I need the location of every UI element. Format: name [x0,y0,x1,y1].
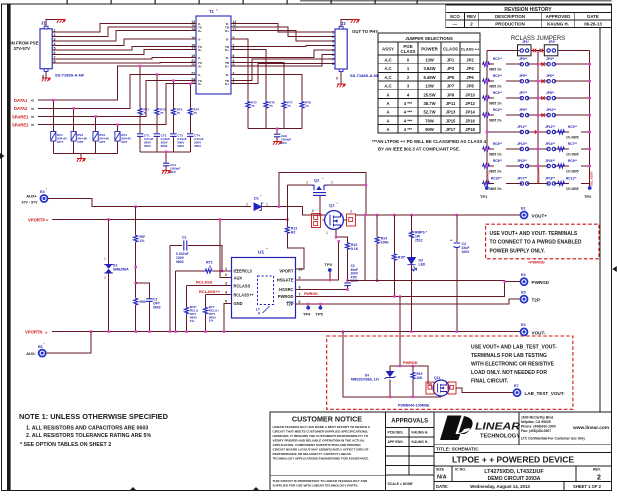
svg-text:CIRCUIT BOARD LAYOUT MAY SIGNI: CIRCUIT BOARD LAYOUT MAY SIGNIFICANTLY A… [273,448,369,452]
svg-text:OPT: OPT [57,140,63,144]
wire RCLASS++ to pin4 [206,294,232,296]
svg-text:0603: 0603 [153,306,161,310]
IN FROM PSE label [11,41,39,52]
zener D4 [351,366,396,397]
svg-text:3.84W: 3.84W [423,66,435,71]
svg-text:0: 0 [209,265,211,269]
wire J2 bottom shield [340,72,342,84]
junction VPORTP/AUX branch [219,218,222,221]
svg-text:5: 5 [332,49,334,53]
capacitor C2 [136,283,161,332]
svg-text:4: 4 [332,44,334,48]
logo / title block [434,412,612,491]
svg-text:RCLASS++: RCLASS++ [199,289,221,294]
svg-text:*: * [347,18,349,23]
wire D1 node to rail [279,207,312,215]
svg-text:VPORTP: VPORTP [28,217,45,222]
main rail VOUT+ right segment [356,214,521,216]
svg-text:Fax: (408)434-0507: Fax: (408)434-0507 [521,429,551,433]
svg-text:JP7: JP7 [447,84,455,89]
svg-text:E7: E7 [514,384,519,388]
resistor R78 [300,101,311,129]
junction TP3 [329,279,332,282]
rclass row 3: RC3 / JP7 / JP8 [482,91,590,106]
svg-text:JP15: JP15 [446,118,456,123]
junction R15 bottom [393,295,396,298]
svg-text:X-: X- [198,56,201,60]
svg-text:1% 0805: 1% 0805 [566,152,579,156]
svg-text:1%: 1% [190,319,195,323]
junction rail dots [364,214,367,217]
svg-text:BY AN IEEE 802.3 AT COMPLIANT: BY AN IEEE 802.3 AT COMPLIANT PSE. [378,147,460,152]
svg-text:JP14: JP14 [465,110,475,115]
svg-text:A: A [386,92,389,97]
wire PWRGD pullup line [348,281,521,282]
svg-text:POWER: POWER [421,47,438,52]
varistor RV3 [93,117,109,154]
X mark JP1 [533,49,537,53]
svg-text:2: 2 [332,35,334,39]
svg-text:JP12: JP12 [465,101,475,106]
note 1 text [19,412,169,448]
svg-text:75: 75 [305,104,309,108]
svg-text:JP2*: JP2* [549,40,557,44]
junction rclass left bus dots [486,63,489,167]
svg-text:A: A [386,118,389,123]
svg-text:RC5**: RC5** [568,125,578,129]
svg-text:OPT: OPT [99,140,105,144]
svg-text:52.7W: 52.7W [423,110,435,115]
varistor RV4 [115,125,131,154]
svg-text:X+: X+ [198,65,202,69]
svg-text:Wednesday, August 14, 2013: Wednesday, August 14, 2013 [470,484,530,489]
resistor R9 [134,207,146,298]
svg-text:LED: LED [419,263,426,267]
svg-text:APPROVALS: APPROVALS [391,419,428,425]
svg-text:U1: U1 [258,250,264,256]
svg-text:*: * [216,8,218,13]
svg-text:***AN LTPOE ++ PD WILL BE CLAS: ***AN LTPOE ++ PD WILL BE CLASSIFIED AS … [372,139,487,144]
svg-text:T2P: T2P [286,302,294,307]
svg-text:0603: 0603 [144,144,151,148]
svg-text:100V: 100V [462,250,471,254]
svg-text:OPT: OPT [121,140,127,144]
svg-text:R15*: R15* [398,256,406,260]
junction Q1 source [335,236,338,239]
svg-text:25.5W: 25.5W [423,92,435,97]
svg-text:PCB DES.: PCB DES. [388,431,404,435]
svg-text:1% 0805: 1% 0805 [566,187,579,191]
svg-text:06-26-13: 06-26-13 [584,22,602,27]
wire R75-78 bus [248,129,302,134]
svg-text:10: 10 [299,267,303,271]
svg-text:0805 1%: 0805 1% [489,118,502,122]
U1 pin names [234,269,294,307]
junction HSSRC tap [346,279,349,282]
svg-text:6: 6 [258,312,260,316]
svg-text:APP ENG.: APP ENG. [388,440,404,444]
svg-text:DATE: DATE [587,14,599,19]
junction VPORTP/R12 column [286,218,289,221]
svg-text:7: 7 [332,58,334,62]
svg-text:4 ***: 4 *** [404,101,413,106]
U1 pin numbers [225,267,303,304]
wire rclass left bus [486,51,488,189]
rclass row 4: RC4 / JP9 / JP10 [482,108,590,123]
wire rclass right bus [589,51,591,189]
svg-text:2512: 2512 [415,239,423,243]
ground RV bus [77,158,86,162]
IC U1 [232,247,296,319]
svg-text:T1: T1 [209,9,215,14]
terminal E2 VOUT- [521,328,528,335]
J1 pin numbers [42,29,56,79]
svg-text:Q1: Q1 [329,203,335,208]
svg-text:WITH ELECTRONIC OR RESISTIVE: WITH ELECTRONIC OR RESISTIVE [471,362,555,368]
svg-text:JP11**: JP11** [517,125,528,129]
transistor Q2 [287,176,366,215]
svg-text:E6: E6 [38,345,43,349]
svg-text:0603: 0603 [177,144,184,148]
svg-text:0603: 0603 [161,144,168,148]
junction C1 to pin1 net [221,270,224,273]
svg-text:RC2**: RC2** [493,74,503,78]
junction RV taps [52,99,55,102]
wire T1 taps to R75-R78 [231,39,302,100]
wire gate distribution [390,366,432,384]
svg-text:70W: 70W [425,118,434,123]
svg-text:0805 1%: 0805 1% [489,68,502,72]
rclass row 7: RC8 / JP15 / JP16 / RC9 [482,159,590,174]
svg-text:9: 9 [299,276,301,280]
resistor R17 [203,295,219,332]
connector J1 [40,18,85,78]
svg-text:DEMO CIRCUIT 2093A: DEMO CIRCUIT 2093A [488,476,541,482]
svg-text:37V - 57V: 37V - 57V [22,201,39,205]
wire HSSRC riser to rail [348,215,366,281]
wire DATA2 line [38,75,196,109]
svg-text:IN FROM PSE: IN FROM PSE [11,41,39,46]
ground J2 bottom [337,84,346,88]
svg-text:Q11: Q11 [434,376,440,380]
svg-text:E1: E1 [521,207,526,211]
junction R9 mid [134,266,137,269]
svg-text:1% 0805: 1% 0805 [566,135,579,139]
svg-text:LINEAR TECHNOLOGY HAS MADE A B: LINEAR TECHNOLOGY HAS MADE A BEST EFFORT… [273,425,371,429]
junction PWRGD riser top [503,280,506,283]
transistor Q1 [312,201,356,235]
customer notice box [270,412,386,491]
svg-text:38.7W: 38.7W [423,101,435,106]
svg-text:2: 2 [597,475,601,482]
svg-text:PRODUCTION: PRODUCTION [495,22,525,27]
svg-text:13W: 13W [425,58,434,63]
resistor RT1 [176,261,232,332]
svg-text:RC1**: RC1** [493,57,503,61]
svg-text:6: 6 [332,53,334,57]
terminal E5 T2P [521,296,528,303]
X mark JP2 [539,49,543,53]
svg-text:100K: 100K [381,241,390,245]
svg-text:RT1: RT1 [206,261,213,265]
svg-text:4 ***: 4 *** [404,127,413,132]
svg-text:LT4275XDD, LT4321IUF: LT4275XDD, LT4321IUF [484,469,544,475]
svg-text:JP17: JP17 [446,127,456,132]
svg-text:SS-7188S-A-NF: SS-7188S-A-NF [55,73,85,78]
resistor R16 [184,286,198,332]
svg-text:D1: D1 [254,197,259,201]
svg-text:JP4**: JP4** [546,57,555,61]
svg-text:THIS CIRCUIT IS PROPRIETARY TO: THIS CIRCUIT IS PROPRIETARY TO LINEAR TE… [273,479,368,483]
svg-text:SPARE2: SPARE2 [12,123,29,128]
svg-text:JP5**: JP5** [519,74,528,78]
svg-text:JP9**: JP9** [519,108,528,112]
svg-text:CLASS ++: CLASS ++ [461,48,480,52]
svg-text:»: » [45,330,48,335]
svg-text:37V-57V: 37V-57V [14,46,31,51]
svg-text:LINEAR: LINEAR [475,421,520,433]
svg-text:X-: X- [198,73,201,77]
capacitor CT1 [137,134,154,152]
svg-text:«: « [31,123,34,129]
svg-text:JP17**: JP17** [517,176,528,180]
svg-text:RCLASS: RCLASS [234,284,251,289]
svg-text:A,C: A,C [384,58,391,63]
wire VPORTP line [52,220,287,278]
svg-text:JP8: JP8 [466,84,474,89]
terminal E1 VOUT+ [521,212,528,219]
svg-text:JP18: JP18 [465,127,475,132]
svg-text:D-: D- [226,38,229,42]
svg-text:0805 1%: 0805 1% [489,152,502,156]
rclass row 2: RC2 / JP5 / JP6 [482,74,590,89]
svg-text:0805 1%: 0805 1% [489,187,502,191]
jumper JP2 [538,40,590,56]
svg-text:JP9: JP9 [447,92,455,97]
svg-text:LTC Confidential-For Customer: LTC Confidential-For Customer Use Only [521,437,585,441]
svg-text:KAUNG H.: KAUNG H. [412,440,429,444]
ground J2 top [351,19,360,23]
svg-text:TO CONNECT TO A PWRGD ENABLED: TO CONNECT TO A PWRGD ENABLED [490,240,582,246]
wire Q3 source bus [343,332,441,397]
J2 pin numbers [332,31,334,67]
svg-text:Milpitas, CA 95035: Milpitas, CA 95035 [521,420,551,424]
svg-text:POWER SUPPLY ONLY.: POWER SUPPLY ONLY. [490,248,546,254]
jumper selections table [378,33,480,133]
svg-text:Q2: Q2 [314,178,320,183]
svg-text:E5: E5 [521,291,526,295]
terminal E3 AUX+ [41,195,48,202]
main rail VOUT+ left segment [312,214,326,216]
svg-text:SHEET 1 OF 2: SHEET 1 OF 2 [573,484,602,489]
svg-text:3: 3 [332,40,334,44]
VPORTN rail [52,331,521,333]
svg-text:1: 1 [332,31,334,35]
jumper table footnote [372,139,487,152]
svg-text:JP10**: JP10** [546,108,557,112]
svg-text:—: — [453,22,458,27]
capacitor CG1 [163,163,181,174]
warning box 1 [486,224,599,259]
svg-text:1: 1 [225,267,227,271]
capacitor CT2 [154,134,171,152]
wire J2 shield top to ground [341,20,355,27]
wire rclass middle bus [537,51,539,184]
svg-text:D-: D- [226,56,229,60]
svg-text:2: 2 [104,276,106,280]
resistor R15 [392,215,406,297]
junction Q2 to riser [365,184,368,187]
svg-text:8: 8 [332,62,334,66]
svg-text:REVISION HISTORY: REVISION HISTORY [504,7,552,13]
svg-text:SMBJ58A: SMBJ58A [113,268,129,272]
border frame right inner line [599,4,601,412]
svg-text:6: 6 [312,209,314,213]
wire Q1 source node to R13 [336,230,348,243]
capacitor CG2 [274,134,292,145]
wire PWRGD pin7 [296,282,505,297]
junction R14 bottom [376,279,379,282]
svg-text:LOAD ONLY. NOT NEEDED FOR: LOAD ONLY. NOT NEEDED FOR [471,370,547,376]
svg-text:JP12**: JP12** [545,125,556,129]
test point TP2 [588,186,592,190]
wire DATA1 line [38,66,196,100]
svg-text:R50*: R50* [140,300,148,304]
svg-text:JUMPER SELECTIONS: JUMPER SELECTIONS [405,36,453,41]
junction rclass middle bus dots [537,63,540,167]
ground CG1 [162,170,171,174]
svg-text:T2P: T2P [532,298,540,303]
terminal E7 LAB_TEST_VOUT- [514,389,521,396]
resistor R50 [134,298,148,332]
terminal E6 AUX- [39,350,46,357]
svg-text:*: * [266,247,268,252]
svg-text:2. ALL RESISTORS TOLERANCE RA: 2. ALL RESISTORS TOLERANCE RATING ARE 5% [26,433,151,439]
test point TP3 [325,262,333,280]
svg-text:SS-7188S-A-NF: SS-7188S-A-NF [350,73,380,78]
wire RV ground bus [53,154,117,159]
svg-text:AUX+: AUX+ [26,194,37,199]
svg-text:JP3: JP3 [447,66,455,71]
svg-text:JP4: JP4 [466,66,474,71]
junction Q3 bus [389,396,392,399]
rclass row 6: RC6 / JP13 / JP14 / RC7 [482,142,590,157]
svg-text:75: 75 [194,111,198,115]
svg-text:HSSRC: HSSRC [279,287,293,292]
svg-text:PWRGD: PWRGD [304,292,318,296]
wire SPARE1 line [38,81,196,117]
svg-text:1: 1 [266,203,268,207]
svg-text:TP3: TP3 [325,262,333,267]
svg-text:RC11**: RC11** [566,176,577,180]
ground CG2 [273,141,282,145]
wire HSGATE riser [296,241,339,280]
capacitor C1 [170,236,222,332]
svg-text:TECHNOLOGY APPLICATIONS ENGINE: TECHNOLOGY APPLICATIONS ENGINEERING FOR … [273,457,370,461]
svg-text:JP8**: JP8** [546,91,555,95]
svg-text:CUSTOMER NOTICE: CUSTOMER NOTICE [292,415,362,424]
rclass row 1: RC1 / JP3 / JP4 [482,57,590,72]
svg-text:JP16: JP16 [465,118,475,123]
test point TP5 [316,304,324,317]
wire AUX- to rail [46,332,91,354]
diode D1 [246,194,268,211]
svg-text:JP1: JP1 [447,58,455,63]
svg-text:VERIFY PROPER AND RELIABLE OPE: VERIFY PROPER AND RELIABLE OPERATION IN … [273,439,365,443]
svg-text:75: 75 [287,104,291,108]
svg-text:A: A [386,101,389,106]
test point TP1 [485,186,489,190]
svg-text:VPORT: VPORT [279,269,294,274]
junction rclass right bus dots [588,63,591,167]
svg-text:75: 75 [251,104,255,108]
svg-text:Phone: (408)432-1900: Phone: (408)432-1900 [521,425,556,429]
ground J1 bottom [42,78,51,82]
svg-text:RC6**: RC6** [493,142,503,146]
junction VPORTN rail dots [90,330,458,333]
resistor R75 [246,101,257,129]
svg-text:X+: X+ [198,29,202,33]
svg-text:«: « [31,115,34,121]
svg-text:TECHNOLOGY: TECHNOLOGY [480,434,521,440]
svg-text:1. ALL RESISTORS AND CAPACITO: 1. ALL RESISTORS AND CAPACITORS ARE 0603 [26,426,148,432]
svg-text:AUX-: AUX- [26,351,36,356]
T1 winding labels [198,22,230,86]
svg-text:RCLASS++: RCLASS++ [537,167,541,183]
svg-text:PWRGD: PWRGD [532,280,550,285]
terminal E4 PWRGD [521,278,528,285]
resistor R13 [345,242,358,281]
junction Q2 drain rail [319,214,322,217]
svg-text:9: 9 [336,77,338,81]
svg-text:75: 75 [269,104,273,108]
junction CT bus [165,151,168,154]
svg-text:TITLE: SCHEMATIC: TITLE: SCHEMATIC [436,447,479,452]
ground J1 top [57,19,66,23]
svg-text:RC10**: RC10** [491,176,502,180]
junction PWRGD Q3 riser [399,295,402,298]
junction gate line [399,365,402,368]
svg-text:USE VOUT+ AND VOUT- TERMINALS: USE VOUT+ AND VOUT- TERMINALS [490,231,578,237]
svg-text:RC3**: RC3** [493,91,503,95]
svg-text:LTPOE + + POWERED DEVICE: LTPOE + + POWERED DEVICE [452,456,575,465]
svg-text:RCLASS JUMPERS: RCLASS JUMPERS [511,36,565,42]
svg-text:E3: E3 [40,190,45,194]
svg-text:NOTE 1: UNLESS OTHERWISE SPECI: NOTE 1: UNLESS OTHERWISE SPECIFIED [19,412,169,421]
border frame left thick bar [7,4,11,491]
lab test dashed box [327,336,573,409]
wire AUX+ to D1 rail [48,199,251,207]
svg-text:LAB_TEST_VOUT-: LAB_TEST_VOUT- [525,391,566,396]
resistor R71 [138,66,149,133]
svg-text:D-: D- [226,73,229,77]
svg-text:TP2: TP2 [584,194,592,199]
rclass row 5: JP11 / JP12 / RC5 [487,125,590,140]
svg-text:HOWEVER, IT REMAINS THE CUSTOM: HOWEVER, IT REMAINS THE CUSTOMER'S RESPO… [273,434,369,438]
svg-text:JP2: JP2 [466,58,474,63]
net arrows [31,98,34,129]
varistor RV1 [51,100,67,153]
svg-text:RC4**: RC4** [493,108,503,112]
junction C3 bottom [346,288,349,291]
svg-text:TP1: TP1 [480,194,488,199]
svg-text:KAUNG H.: KAUNG H. [547,22,569,27]
svg-text:10K: 10K [417,376,424,380]
wire CT bus [140,152,190,163]
svg-text:RCLASS++: RCLASS++ [234,292,255,297]
svg-text:«: « [31,106,34,112]
svg-text:JP10: JP10 [465,92,475,97]
